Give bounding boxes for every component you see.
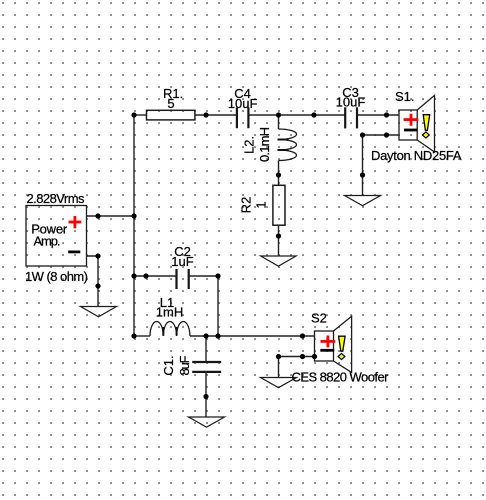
svg-text:S2: S2 (311, 311, 327, 326)
svg-text:1uF: 1uF (171, 254, 193, 269)
svg-text:L2.: L2. (242, 136, 257, 154)
svg-text:2.828Vrms: 2.828Vrms (27, 191, 86, 206)
svg-text:R2: R2 (239, 197, 254, 214)
svg-text:C1.: C1. (161, 355, 176, 375)
svg-text:10uF: 10uF (336, 95, 366, 110)
svg-text:Amp.: Amp. (34, 234, 61, 249)
svg-text:Dayton ND25FA: Dayton ND25FA (371, 148, 462, 163)
svg-text:8uF: 8uF (177, 355, 192, 375)
svg-text:0.1mH: 0.1mH (257, 127, 272, 162)
svg-text:5: 5 (167, 96, 174, 111)
svg-text:1: 1 (254, 201, 269, 208)
svg-text:S1.: S1. (395, 89, 415, 104)
svg-text:10uF: 10uF (228, 96, 258, 111)
svg-text:CES 8820 Woofer: CES 8820 Woofer (292, 370, 390, 385)
svg-text:1mH: 1mH (156, 305, 183, 320)
svg-text:1W (8 ohm): 1W (8 ohm) (25, 269, 88, 284)
